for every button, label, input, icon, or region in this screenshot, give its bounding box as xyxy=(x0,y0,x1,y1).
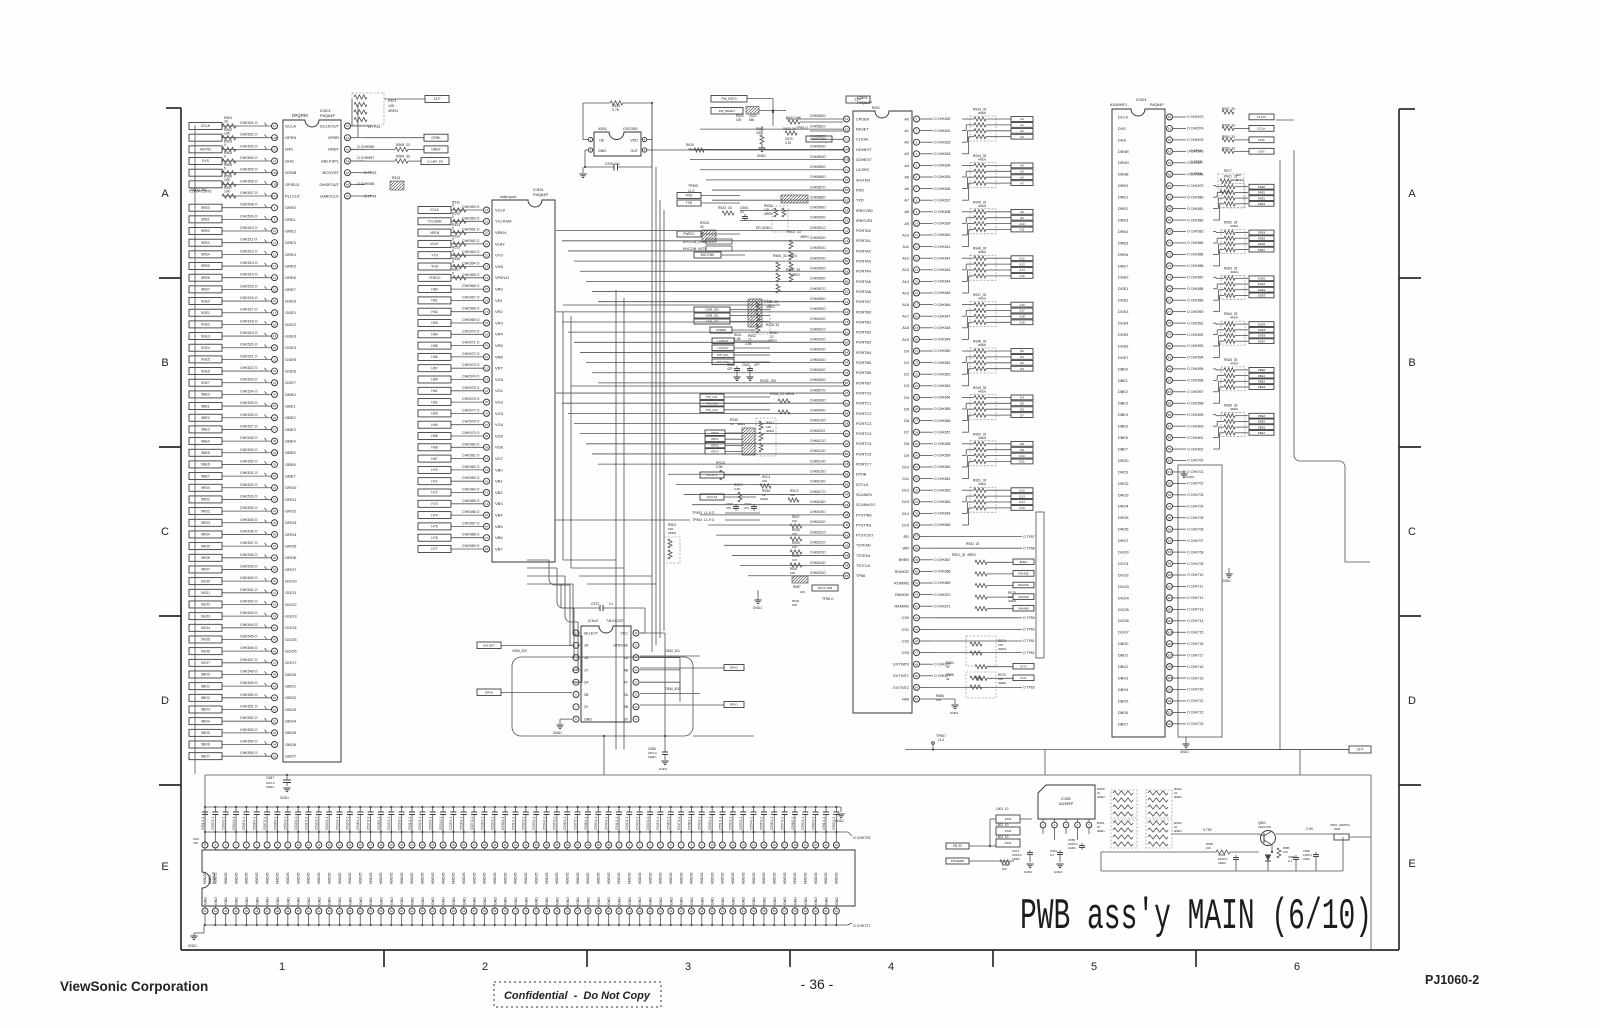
test point TP60 xyxy=(933,628,1022,630)
svg-text:L2B: L2B xyxy=(272,136,277,140)
svg-text:4: 4 xyxy=(888,961,894,973)
bus tag box DGE3 xyxy=(1249,293,1274,298)
svg-text:4REN: 4REN xyxy=(1230,316,1238,320)
svg-text:GGO6: GGO6 xyxy=(285,649,297,654)
bus tag box A13 xyxy=(1011,262,1033,267)
svg-text:A4: A4 xyxy=(845,361,849,365)
svg-text:9BE0: 9BE0 xyxy=(201,393,209,397)
svg-text:CHK594O: CHK594O xyxy=(810,256,826,260)
wire CHK586 to pin WGTEN xyxy=(706,179,843,181)
wire R519 loop xyxy=(583,102,610,104)
svg-text:YY9: YY9 xyxy=(431,253,438,257)
svg-text:- 36 -: - 36 - xyxy=(801,976,834,992)
central IC pin CLK3H xyxy=(844,136,850,142)
svg-text:O CHK653: O CHK653 xyxy=(934,384,951,388)
svg-text:9GO0: 9GO0 xyxy=(201,579,210,583)
IC501 pin GGO4 xyxy=(272,625,278,631)
svg-text:PTSTIN1: PTSTIN1 xyxy=(856,523,872,527)
svg-text:RS31 33: RS31 33 xyxy=(766,323,779,327)
svg-text:A5: A5 xyxy=(346,171,350,175)
svg-text:CHK555 O: CHK555 O xyxy=(240,751,258,755)
svg-text:D8: D8 xyxy=(904,442,909,446)
wire CHK579 to IC591 pin VG5 xyxy=(451,435,483,437)
svg-text:GABCCLK: GABCCLK xyxy=(320,193,339,198)
bus tag box A15 xyxy=(1011,274,1033,279)
svg-text:DBE6: DBE6 xyxy=(1258,425,1266,429)
svg-text:3-91: 3-91 xyxy=(785,141,792,145)
central IC pin PORTB0 xyxy=(844,309,850,315)
IC591 pin VHS xyxy=(484,264,490,270)
svg-text:L3B: L3B xyxy=(272,182,277,186)
svg-text:9RE0: 9RE0 xyxy=(201,206,210,210)
svg-text:C548 0-1: C548 0-1 xyxy=(687,817,691,830)
74LVC257 pin 1 SELECT xyxy=(573,630,579,636)
svg-text:C511 0-1: C511 0-1 xyxy=(304,817,308,830)
svg-text:GFBR: GFBR xyxy=(328,135,339,140)
svg-text:9BO4: 9BO4 xyxy=(201,719,210,723)
svg-text:PORTC3: PORTC3 xyxy=(856,422,871,426)
svg-text:9BO5: 9BO5 xyxy=(201,731,210,735)
svg-text:GND: GND xyxy=(690,897,694,905)
svg-text:DRO6: DRO6 xyxy=(1118,528,1129,532)
bus tag box DRE4 xyxy=(1249,230,1274,235)
svg-text:32CNT2: 32CNT2 xyxy=(706,473,718,477)
wire CHK585 to pin UCSRC xyxy=(700,169,843,171)
ground GND1 top of bundle xyxy=(1183,470,1185,474)
svg-text:O CHK642: O CHK642 xyxy=(934,256,951,260)
svg-text:GCLK: GCLK xyxy=(201,124,211,128)
X501 pin 3 xyxy=(642,148,646,152)
input box 9RO5 xyxy=(189,543,222,550)
IC501 pin GGE7 xyxy=(272,380,278,386)
svg-text:4REN: 4REN xyxy=(388,109,398,113)
svg-text:9GE5: 9GE5 xyxy=(201,358,210,362)
signal box DRV0b xyxy=(477,689,501,696)
svg-text:CHK596O: CHK596O xyxy=(810,277,826,281)
connector pin top 26 xyxy=(463,832,465,842)
svg-text:103: 103 xyxy=(1167,607,1172,611)
IC591 pin VR1 xyxy=(484,297,490,303)
ground GND1 bottom left xyxy=(203,925,205,933)
resistor RS44 element 2 xyxy=(962,176,966,178)
svg-text:4REN: 4REN xyxy=(1230,361,1238,365)
svg-text:HDD25: HDD25 xyxy=(245,872,249,884)
svg-text:DRE6: DRE6 xyxy=(1258,242,1266,246)
wire CHK605 to pin PORTB6 xyxy=(592,372,843,374)
connector pin top 7 xyxy=(266,832,268,842)
svg-text:B5: B5 xyxy=(845,280,849,284)
input box 9GO3 xyxy=(189,613,222,620)
svg-text:O CHK601: O CHK601 xyxy=(1187,436,1204,440)
svg-text:A7: A7 xyxy=(1020,181,1024,185)
svg-text:5: 5 xyxy=(452,204,454,208)
IC501 pin GBE6 xyxy=(272,461,278,467)
wire VDD xyxy=(647,139,652,141)
svg-text:VB1: VB1 xyxy=(495,479,503,484)
central IC pin IRRCVR0 xyxy=(844,207,850,213)
svg-text:13-P: 13-P xyxy=(1356,748,1364,752)
svg-text:CHK508 O: CHK508 O xyxy=(240,203,258,207)
svg-text:DBO6: DBO6 xyxy=(1118,711,1128,715)
svg-text:DBE4: DBE4 xyxy=(1118,413,1128,417)
svg-text:CHK582 O: CHK582 O xyxy=(462,465,480,469)
wire CHK553 net to IC501 pin GBO5 xyxy=(222,732,271,734)
svg-text:DRE0: DRE0 xyxy=(1118,184,1128,188)
bus tag box DGE0 xyxy=(1249,276,1274,281)
svg-text:GRO3: GRO3 xyxy=(285,520,297,525)
svg-text:O CHK667: O CHK667 xyxy=(934,558,951,562)
connector pin top 10 xyxy=(297,832,299,842)
svg-text:CHK599O: CHK599O xyxy=(810,307,826,311)
svg-text:HDD25: HDD25 xyxy=(421,872,425,884)
svg-text:RS52 33: RS52 33 xyxy=(966,542,980,546)
input box H74 xyxy=(418,512,451,519)
connector pin top 49 xyxy=(701,832,703,842)
svg-text:A17: A17 xyxy=(1019,309,1025,313)
svg-text:GND: GND xyxy=(442,897,446,905)
svg-text:HDD25: HDD25 xyxy=(276,872,280,884)
resistor RS63 element 3 xyxy=(1213,299,1218,301)
input box 9RE0 xyxy=(189,204,222,211)
svg-text:A1: A1 xyxy=(1020,123,1024,127)
svg-text:GND: GND xyxy=(266,897,270,905)
IC591 pin VR5 xyxy=(484,343,490,349)
wire CHK584 to pin DGHEXT xyxy=(690,159,843,161)
svg-text:YFIELD: YFIELD xyxy=(429,276,441,280)
resistor box R572 xyxy=(806,136,832,142)
svg-text:HDD25: HDD25 xyxy=(317,872,321,884)
svg-text:4REN: 4REN xyxy=(998,647,1006,651)
svg-text:D2: D2 xyxy=(1020,361,1024,365)
svg-text:O CHK710: O CHK710 xyxy=(1187,573,1204,577)
svg-text:CHK510 O: CHK510 O xyxy=(240,226,258,230)
svg-text:SCANEN: SCANEN xyxy=(856,493,872,497)
svg-text:GND: GND xyxy=(338,897,342,905)
svg-text:GND: GND xyxy=(555,897,559,905)
IC591 pin VB7 xyxy=(484,546,490,552)
svg-text:HDD33: HDD33 xyxy=(638,872,642,884)
svg-text:106: 106 xyxy=(1167,642,1172,646)
svg-text:HDD25: HDD25 xyxy=(607,872,611,884)
svg-text:5: 5 xyxy=(452,226,454,230)
resistor R502 xyxy=(222,136,236,140)
svg-text:B6: B6 xyxy=(845,401,849,405)
wire CHK562 to IC591 pin VLAY xyxy=(451,243,483,245)
svg-text:G8: G8 xyxy=(845,503,849,507)
svg-text:O CHK671: O CHK671 xyxy=(934,604,951,608)
wire CHK574 to IC591 pin VG0 xyxy=(451,379,483,381)
svg-text:PORTB0: PORTB0 xyxy=(856,310,871,314)
svg-text:A0: A0 xyxy=(1020,117,1024,121)
svg-text:CS3: CS3 xyxy=(902,651,909,655)
svg-text:B3: B3 xyxy=(845,259,849,263)
connector pin top 59 xyxy=(804,832,806,842)
74LVC257 pin 6 2B xyxy=(573,692,579,698)
svg-text:B5: B5 xyxy=(845,381,849,385)
svg-text:IRRCVR0: IRRCVR0 xyxy=(856,209,873,213)
svg-text:RAMWE: RAMWE xyxy=(894,605,909,609)
footer confidential stamp xyxy=(494,982,661,1007)
svg-text:HDD25: HDD25 xyxy=(441,872,445,884)
resistor box RS73 xyxy=(812,585,838,591)
svg-text:O CHK708: O CHK708 xyxy=(1187,550,1204,554)
resistor RS46 element 2 xyxy=(962,269,966,271)
svg-text:UCSRC: UCSRC xyxy=(856,168,870,172)
svg-text:HDD25: HDD25 xyxy=(545,872,549,884)
svg-text:O CHK719: O CHK719 xyxy=(1187,676,1204,680)
wires L rail xyxy=(989,819,991,846)
wire CHK569 to IC591 pin VR3 xyxy=(451,322,483,324)
svg-text:A5: A5 xyxy=(845,391,849,395)
svg-text:DGO7: DGO7 xyxy=(1118,631,1129,635)
svg-text:GBO5: GBO5 xyxy=(285,730,297,735)
svg-text:O CHK662: O CHK662 xyxy=(934,488,951,492)
svg-text:4REN: 4REN xyxy=(1230,224,1238,228)
svg-text:GBE7: GBE7 xyxy=(285,474,296,479)
resistor R514 xyxy=(453,242,466,246)
svg-text:GCLKOUT: GCLKOUT xyxy=(320,123,340,128)
IC591 pin VB4 xyxy=(484,512,490,518)
svg-text:R557 33: R557 33 xyxy=(1222,107,1235,111)
svg-text:O CHK634: O CHK634 xyxy=(934,164,951,168)
svg-text:VB7: VB7 xyxy=(495,546,503,551)
svg-text:CHK588 O: CHK588 O xyxy=(462,533,480,537)
svg-text:9RO2: 9RO2 xyxy=(201,509,210,513)
wire loop bottom extension xyxy=(693,735,754,737)
svg-text:CHK549 O: CHK549 O xyxy=(240,681,258,685)
svg-text:HDD25: HDD25 xyxy=(597,872,601,884)
power return rail xyxy=(1101,870,1343,872)
wire CHK575 to IC591 pin VG1 xyxy=(451,390,483,392)
resistor to INT1 xyxy=(975,676,987,680)
svg-text:A11: A11 xyxy=(903,245,909,249)
svg-text:HGHEXT: HGHEXT xyxy=(856,148,873,152)
svg-text:TSTEN1: TSTEN1 xyxy=(856,554,871,558)
wire bus drop to E section xyxy=(603,736,605,775)
svg-text:D9: D9 xyxy=(904,454,909,458)
resistor RS66 element 1 xyxy=(1213,414,1216,416)
svg-text:CHK534 O: CHK534 O xyxy=(240,506,258,510)
input box 9RE7 xyxy=(189,286,222,293)
svg-text:R500_33 4REN: R500_33 4REN xyxy=(773,254,797,258)
wire CHK518 net to IC501 pin GGE2 xyxy=(222,323,271,325)
wire CHK598 to pin PORTA7 xyxy=(598,301,843,303)
svg-text:107: 107 xyxy=(1167,653,1172,657)
svg-text:O CHK587: O CHK587 xyxy=(1187,276,1204,280)
wire bus from network xyxy=(351,99,353,126)
svg-text:B1: B1 xyxy=(845,188,849,192)
svg-text:CHK512 O: CHK512 O xyxy=(240,249,258,253)
svg-text:H51: H51 xyxy=(431,299,437,303)
svg-text:4REN: 4REN xyxy=(1230,178,1238,182)
svg-text:B1: B1 xyxy=(845,249,849,253)
svg-text:DBE7: DBE7 xyxy=(1118,447,1128,451)
svg-text:O CHK573: O CHK573 xyxy=(1187,115,1204,119)
svg-text:9BE2: 9BE2 xyxy=(201,416,209,420)
svg-text:O CHK670: O CHK670 xyxy=(934,593,951,597)
svg-text:9BO7: 9BO7 xyxy=(201,754,210,758)
svg-text:GND: GND xyxy=(462,897,466,905)
svg-text:O CHK582: O CHK582 xyxy=(1187,218,1204,222)
IC501 pin GBE3 xyxy=(272,426,278,432)
svg-text:GND: GND xyxy=(607,897,611,905)
svg-text:110: 110 xyxy=(1167,688,1172,692)
bus tag box DRE0 xyxy=(1249,184,1274,189)
input box 9GE1 xyxy=(189,309,222,316)
IC501 pin GRO6 xyxy=(272,555,278,561)
input box 9GO0 xyxy=(189,578,222,585)
input box 9BO6 xyxy=(189,741,222,748)
bus tag box A14 xyxy=(1011,268,1033,273)
resistor RS66 element 2 xyxy=(1213,425,1217,427)
svg-text:CHK535 O: CHK535 O xyxy=(240,518,258,522)
wire CHK544 net to IC501 pin GGO4 xyxy=(222,627,271,629)
svg-text:H61: H61 xyxy=(431,389,437,393)
svg-text:PORTB4: PORTB4 xyxy=(856,351,871,355)
connector pin top 39 xyxy=(597,832,599,842)
capacitor C542 0-1 xyxy=(628,806,630,808)
central IC pin PORTA2 xyxy=(844,248,850,254)
IC501 pin PLLCLK xyxy=(272,193,278,199)
wire CHK570 to IC591 pin VR4 xyxy=(451,333,483,335)
svg-text:4REN: 4REN xyxy=(1174,829,1181,833)
signal boxes LCD PW xyxy=(712,338,734,344)
input box H56 xyxy=(418,353,451,360)
resistor RS43 element 1 xyxy=(962,118,965,120)
IC501 pin GBE4 xyxy=(272,438,278,444)
svg-text:CHK547 O: CHK547 O xyxy=(240,658,258,662)
resistor RS62 element 2 xyxy=(1213,242,1217,244)
svg-text:10K: 10K xyxy=(224,190,231,194)
input box YFIELD xyxy=(418,274,451,281)
svg-text:PWRC1: PWRC1 xyxy=(683,232,695,236)
input box 9GE6 xyxy=(189,368,222,375)
test point TP58 xyxy=(933,547,1022,549)
svg-text:K8: K8 xyxy=(845,533,849,537)
svg-text:DGE3: DGE3 xyxy=(1118,310,1128,314)
svg-text:VB5: VB5 xyxy=(495,524,503,529)
central IC pin PORTC0 xyxy=(844,390,850,396)
svg-text:4REN: 4REN xyxy=(766,305,775,309)
wire CHK573 to IC591 pin VR7 xyxy=(451,367,483,369)
svg-text:A3: A3 xyxy=(346,147,350,151)
svg-text:DBE1: DBE1 xyxy=(1118,379,1128,383)
svg-text:GND: GND xyxy=(598,149,606,153)
vertical links to upper wire xyxy=(1044,750,1046,775)
bus tag box A6 xyxy=(1011,175,1033,180)
regulator IC550 64255FP body xyxy=(1038,785,1095,819)
svg-text:C: C xyxy=(161,526,169,538)
svg-text:O CHK658: O CHK658 xyxy=(934,442,951,446)
svg-text:HDD33: HDD33 xyxy=(731,872,735,884)
svg-text:9RE1: 9RE1 xyxy=(201,218,210,222)
svg-text:5: 5 xyxy=(452,238,454,242)
svg-text:A1B: A1B xyxy=(844,148,849,152)
svg-text:GND: GND xyxy=(638,897,642,905)
svg-text:SCANHOG: SCANHOG xyxy=(856,503,875,507)
svg-text:H53: H53 xyxy=(431,321,437,325)
inductor L502 xyxy=(996,827,1020,835)
svg-text:C572: C572 xyxy=(591,602,599,606)
svg-text:VDD: VDD xyxy=(630,139,638,143)
svg-text:4532: 4532 xyxy=(1005,829,1012,833)
svg-text:TP56 O: TP56 O xyxy=(822,597,834,601)
wire CHK591 to pin PORTA0 xyxy=(556,230,843,232)
IC501 pin GGO3 xyxy=(272,613,278,619)
svg-text:4REN: 4REN xyxy=(978,250,986,254)
svg-text:YHS: YHS xyxy=(431,265,439,269)
resistor array column xyxy=(1146,790,1172,818)
bus tag box A1 xyxy=(1011,123,1033,128)
svg-text:O CHK585: O CHK585 xyxy=(1187,253,1204,257)
svg-text:CHK575 O: CHK575 O xyxy=(462,386,480,390)
svg-text:E1: E1 xyxy=(845,127,849,131)
svg-text:4REN: 4REN xyxy=(791,273,800,277)
svg-text:5: 5 xyxy=(452,249,454,253)
svg-text:HDD33: HDD33 xyxy=(804,872,808,884)
svg-text:CHK518 O: CHK518 O xyxy=(240,319,258,323)
output box GREF xyxy=(424,146,448,153)
svg-text:CHK595O: CHK595O xyxy=(810,266,826,270)
svg-text:CHK600O: CHK600O xyxy=(810,317,826,321)
wire X501 OUT xyxy=(647,149,843,151)
svg-text:VG5: VG5 xyxy=(495,433,504,438)
capacitor C545 0-1 xyxy=(659,806,661,808)
signal box BOOTME xyxy=(694,252,721,258)
svg-text:5: 5 xyxy=(452,215,454,219)
svg-text:DRV1: DRV1 xyxy=(711,437,719,441)
svg-text:CHK546 O: CHK546 O xyxy=(240,646,258,650)
svg-text:VG4: VG4 xyxy=(495,422,504,427)
svg-text:D14: D14 xyxy=(1019,500,1025,504)
svg-text:O CHK575: O CHK575 xyxy=(1187,138,1204,142)
svg-text:4REN: 4REN xyxy=(668,531,676,535)
connector pin top 41 xyxy=(618,832,620,842)
svg-text:DRE4: DRE4 xyxy=(1118,230,1128,234)
svg-text:VLAY: VLAY xyxy=(430,242,439,246)
svg-text:GGO0: GGO0 xyxy=(285,579,297,584)
capacitor C546 0-1 xyxy=(670,806,672,808)
svg-text:O CHK655: O CHK655 xyxy=(934,407,951,411)
wire CHK547 net to IC501 pin GGO7 xyxy=(222,662,271,664)
bus tag box RCHOE xyxy=(1013,571,1034,577)
svg-text:C530 0-1: C530 0-1 xyxy=(501,817,505,830)
wire CHK522 net to IC501 pin GGE6 xyxy=(222,370,271,372)
svg-text:HDD33: HDD33 xyxy=(824,872,828,884)
svg-text:DRE1: DRE1 xyxy=(1258,191,1266,195)
svg-text:4REN: 4REN xyxy=(978,436,986,440)
wire to 13-P box xyxy=(384,98,425,100)
svg-text:RAMOE: RAMOE xyxy=(1018,595,1028,599)
svg-text:GGE2: GGE2 xyxy=(285,322,297,327)
svg-text:GND1: GND1 xyxy=(1222,579,1231,583)
test point TP61 xyxy=(933,640,1022,642)
bus tag box FWHWE xyxy=(1013,605,1034,611)
svg-text:CHK621O: CHK621O xyxy=(810,530,826,534)
bus tag box D11 xyxy=(1011,459,1033,464)
bus tag box D7 xyxy=(1011,413,1033,418)
IC501 pin GGO6 xyxy=(272,648,278,654)
bus tag box REHWE xyxy=(1013,582,1034,588)
svg-text:CHK550 O: CHK550 O xyxy=(240,693,258,697)
capacitor C562 0-1 xyxy=(835,806,837,808)
svg-text:200: 200 xyxy=(756,131,762,135)
svg-text:IRRCVR1: IRRCVR1 xyxy=(856,219,873,223)
bus tag box INT1 xyxy=(1013,675,1034,681)
svg-text:C534 0-1: C534 0-1 xyxy=(542,817,546,830)
svg-text:HDD25: HDD25 xyxy=(358,872,362,884)
connector ground bus xyxy=(204,924,848,926)
